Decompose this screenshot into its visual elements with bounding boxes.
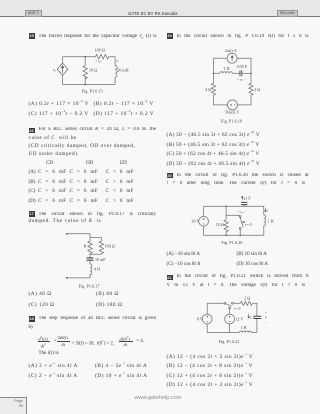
resistor to bottom bbox=[225, 232, 227, 236]
svg-text:vs: vs bbox=[53, 67, 57, 73]
svg-text:100 Ω: 100 Ω bbox=[95, 47, 105, 52]
current source top bbox=[227, 53, 237, 63]
switch 12V contact bbox=[229, 307, 231, 309]
resistor 4ohm bbox=[211, 83, 215, 95]
Q21 options bbox=[167, 352, 254, 360]
wire top right bbox=[237, 58, 251, 64]
svg-text:2 Ω: 2 Ω bbox=[254, 87, 260, 92]
svg-text:Fig. P1.6.17: Fig. P1.6.17 bbox=[79, 283, 101, 288]
table bbox=[46, 161, 53, 166]
terminal dot top bbox=[66, 233, 68, 235]
svg-text:Fig. P1.6.19: Fig. P1.6.19 bbox=[221, 118, 242, 123]
svg-text:−: − bbox=[265, 320, 267, 324]
node dot top middle bbox=[84, 56, 86, 58]
node bottom resistor bbox=[225, 235, 227, 237]
resistor 100ohm bbox=[96, 54, 109, 59]
svg-text:t = 0: t = 0 bbox=[245, 223, 252, 227]
switch contact on wire bbox=[224, 302, 226, 304]
capacitor plates bbox=[241, 202, 247, 204]
wire right vertical lower bbox=[237, 95, 251, 105]
wire cap to bottom bbox=[256, 319, 258, 333]
footer page box bbox=[0, 397, 27, 414]
wire switch to resistor bbox=[234, 302, 241, 304]
resistor 100ohm right bbox=[99, 241, 103, 254]
Q17 options bbox=[29, 292, 52, 297]
wire top left bbox=[214, 57, 228, 59]
svg-text:10 Ω: 10 Ω bbox=[216, 222, 224, 227]
wire left vertical to resistor bbox=[213, 73, 215, 83]
resistor R bbox=[88, 241, 92, 254]
8V stubs bbox=[206, 303, 208, 314]
node top resistor bbox=[225, 206, 227, 208]
voltage source bottom bbox=[227, 100, 237, 110]
dependent source diamond bbox=[57, 63, 68, 75]
switch arrow bbox=[241, 222, 245, 224]
wire top bbox=[204, 206, 264, 215]
resistor branch wire bbox=[225, 206, 227, 220]
source 12V bbox=[225, 314, 235, 324]
svg-text:2u(t) A: 2u(t) A bbox=[225, 48, 237, 53]
source 8V bbox=[202, 314, 212, 324]
wire bottom bbox=[204, 234, 264, 236]
wire top from 8V bbox=[207, 302, 224, 304]
svg-text:v: v bbox=[265, 315, 267, 319]
svg-text:10 Ω: 10 Ω bbox=[89, 68, 97, 73]
resistor 2ohm bbox=[240, 301, 252, 305]
wire cap to inductor bbox=[89, 260, 91, 264]
capacitor 1F branch bbox=[243, 198, 245, 207]
resistor 10ohm bbox=[83, 66, 87, 79]
svg-text:+ vC −: + vC − bbox=[238, 210, 246, 215]
svg-text:+ vC −: + vC − bbox=[237, 78, 246, 83]
wire bottom left bbox=[207, 332, 239, 334]
capacitor plates right bbox=[254, 316, 261, 318]
wire left top bbox=[62, 57, 64, 63]
figure Fig. P1.6.19 bbox=[204, 46, 264, 126]
wire left bottom bbox=[62, 75, 64, 84]
Networks tab bbox=[277, 10, 299, 16]
svg-text:8 V: 8 V bbox=[197, 316, 203, 321]
wire left vertical lower bbox=[214, 95, 228, 105]
capacitor 10mF bbox=[87, 258, 94, 260]
svg-text:1 H: 1 H bbox=[241, 325, 247, 330]
wire bottom bbox=[67, 277, 90, 279]
source +- bbox=[230, 104, 235, 106]
wire source top stub bbox=[203, 206, 205, 216]
figure Fig. P1.6.21 bbox=[196, 292, 272, 348]
svg-text:10 mF: 10 mF bbox=[95, 257, 106, 262]
svg-text:Fig. P1.6.21: Fig. P1.6.21 bbox=[219, 339, 240, 344]
wire middle lower bbox=[84, 77, 86, 85]
wire parallel bottom rail bbox=[90, 253, 101, 256]
wire resistor to corner bbox=[252, 303, 257, 316]
resistor 10ohm bbox=[224, 220, 228, 232]
inductor 1H bottom bbox=[239, 331, 251, 333]
wire top bbox=[67, 234, 90, 238]
svg-text:t = 0: t = 0 bbox=[234, 307, 241, 311]
wire left stub bbox=[89, 238, 91, 242]
voltage source 20V bbox=[199, 216, 209, 226]
math line bbox=[38, 335, 47, 342]
svg-text:i: i bbox=[267, 207, 269, 212]
Q15 options bbox=[29, 99, 90, 107]
arrow up at cap bbox=[241, 196, 243, 200]
svg-text:1 F: 1 F bbox=[245, 195, 251, 200]
svg-text:2 Ω: 2 Ω bbox=[244, 295, 250, 300]
svg-text:1 H: 1 H bbox=[224, 66, 230, 71]
svg-text:20 mH: 20 mH bbox=[117, 68, 128, 73]
capacitor 0.05F bbox=[240, 70, 242, 76]
footer watermark bbox=[135, 395, 182, 401]
inductor 4H bbox=[90, 264, 92, 278]
wire bottom right bbox=[251, 332, 257, 334]
switch stub horizontal bbox=[226, 214, 240, 216]
inductor 1H bbox=[220, 72, 233, 74]
svg-text:Fig. P1.6.15: Fig. P1.6.15 bbox=[82, 89, 103, 94]
source arrow bbox=[62, 66, 64, 73]
resistor 2ohm right bbox=[250, 64, 252, 83]
terminal dot bottom bbox=[66, 277, 68, 279]
svg-text:4 Ω: 4 Ω bbox=[205, 87, 211, 92]
wire left vertical upper bbox=[213, 58, 215, 73]
svg-text:50u(t) V: 50u(t) V bbox=[225, 110, 239, 115]
wire mid left stub bbox=[214, 72, 220, 74]
header gray band bbox=[0, 0, 320, 17]
UNIT 1 tab bbox=[25, 10, 43, 16]
wire mid right bbox=[242, 72, 251, 74]
node dot bottom middle bbox=[84, 84, 86, 86]
svg-text:iL: iL bbox=[116, 58, 119, 63]
inductor 1H right bbox=[264, 215, 266, 235]
svg-text:12 V: 12 V bbox=[236, 316, 244, 321]
wire bottom bbox=[63, 84, 116, 86]
switch right contact on wire bbox=[232, 302, 234, 304]
wire to capacitor bbox=[89, 254, 91, 257]
wire top right bbox=[109, 56, 115, 58]
figure Fig. P1.6.20 bbox=[190, 194, 270, 246]
wire middle branch bbox=[84, 57, 86, 66]
8V bottom stub bbox=[206, 324, 208, 333]
wire parallel top rail bbox=[90, 238, 101, 242]
svg-text:+ vR −: + vR − bbox=[95, 59, 103, 64]
switch to bottom wire bbox=[239, 229, 241, 235]
inductor 20mH bbox=[115, 57, 117, 85]
Q18 options bbox=[29, 361, 78, 369]
source arrow up bbox=[231, 56, 233, 61]
svg-text:1 H: 1 H bbox=[268, 218, 274, 223]
svg-text:0.05 F: 0.05 F bbox=[237, 64, 248, 69]
switch arm bbox=[226, 304, 232, 307]
12V top stub bbox=[229, 309, 231, 314]
label i arrow right top bbox=[265, 208, 267, 212]
node dot left bbox=[213, 73, 215, 75]
node bottom switch bbox=[239, 235, 241, 237]
wire source bottom stub bbox=[203, 226, 205, 235]
switch bottom contact bbox=[239, 228, 241, 230]
Q19 options bbox=[167, 130, 260, 138]
svg-text:100 Ω: 100 Ω bbox=[105, 243, 115, 248]
switch top contact bbox=[239, 216, 241, 218]
figure Fig. P1.6.17 bbox=[60, 228, 118, 290]
header center title bbox=[128, 11, 178, 16]
svg-text:1 F: 1 F bbox=[250, 316, 255, 320]
node dot right bbox=[250, 73, 252, 75]
12V +- bbox=[229, 316, 231, 322]
figure Fig. P1.6.15 bbox=[50, 45, 134, 97]
svg-text:+: + bbox=[265, 310, 267, 314]
svg-text:Fig. P1.6.20: Fig. P1.6.20 bbox=[221, 240, 242, 245]
wire mid center bbox=[232, 72, 240, 74]
source +- mark bbox=[203, 218, 205, 224]
8V +- bbox=[206, 316, 208, 322]
12V bottom stub bbox=[229, 324, 231, 333]
svg-text:4 H: 4 H bbox=[94, 266, 100, 271]
svg-text:R: R bbox=[83, 243, 87, 248]
label 1F arrow bbox=[248, 314, 250, 319]
wire top bbox=[63, 56, 96, 58]
svg-text:20 V: 20 V bbox=[192, 219, 200, 224]
switch arm bbox=[240, 218, 243, 228]
Q20 options bbox=[167, 252, 200, 257]
